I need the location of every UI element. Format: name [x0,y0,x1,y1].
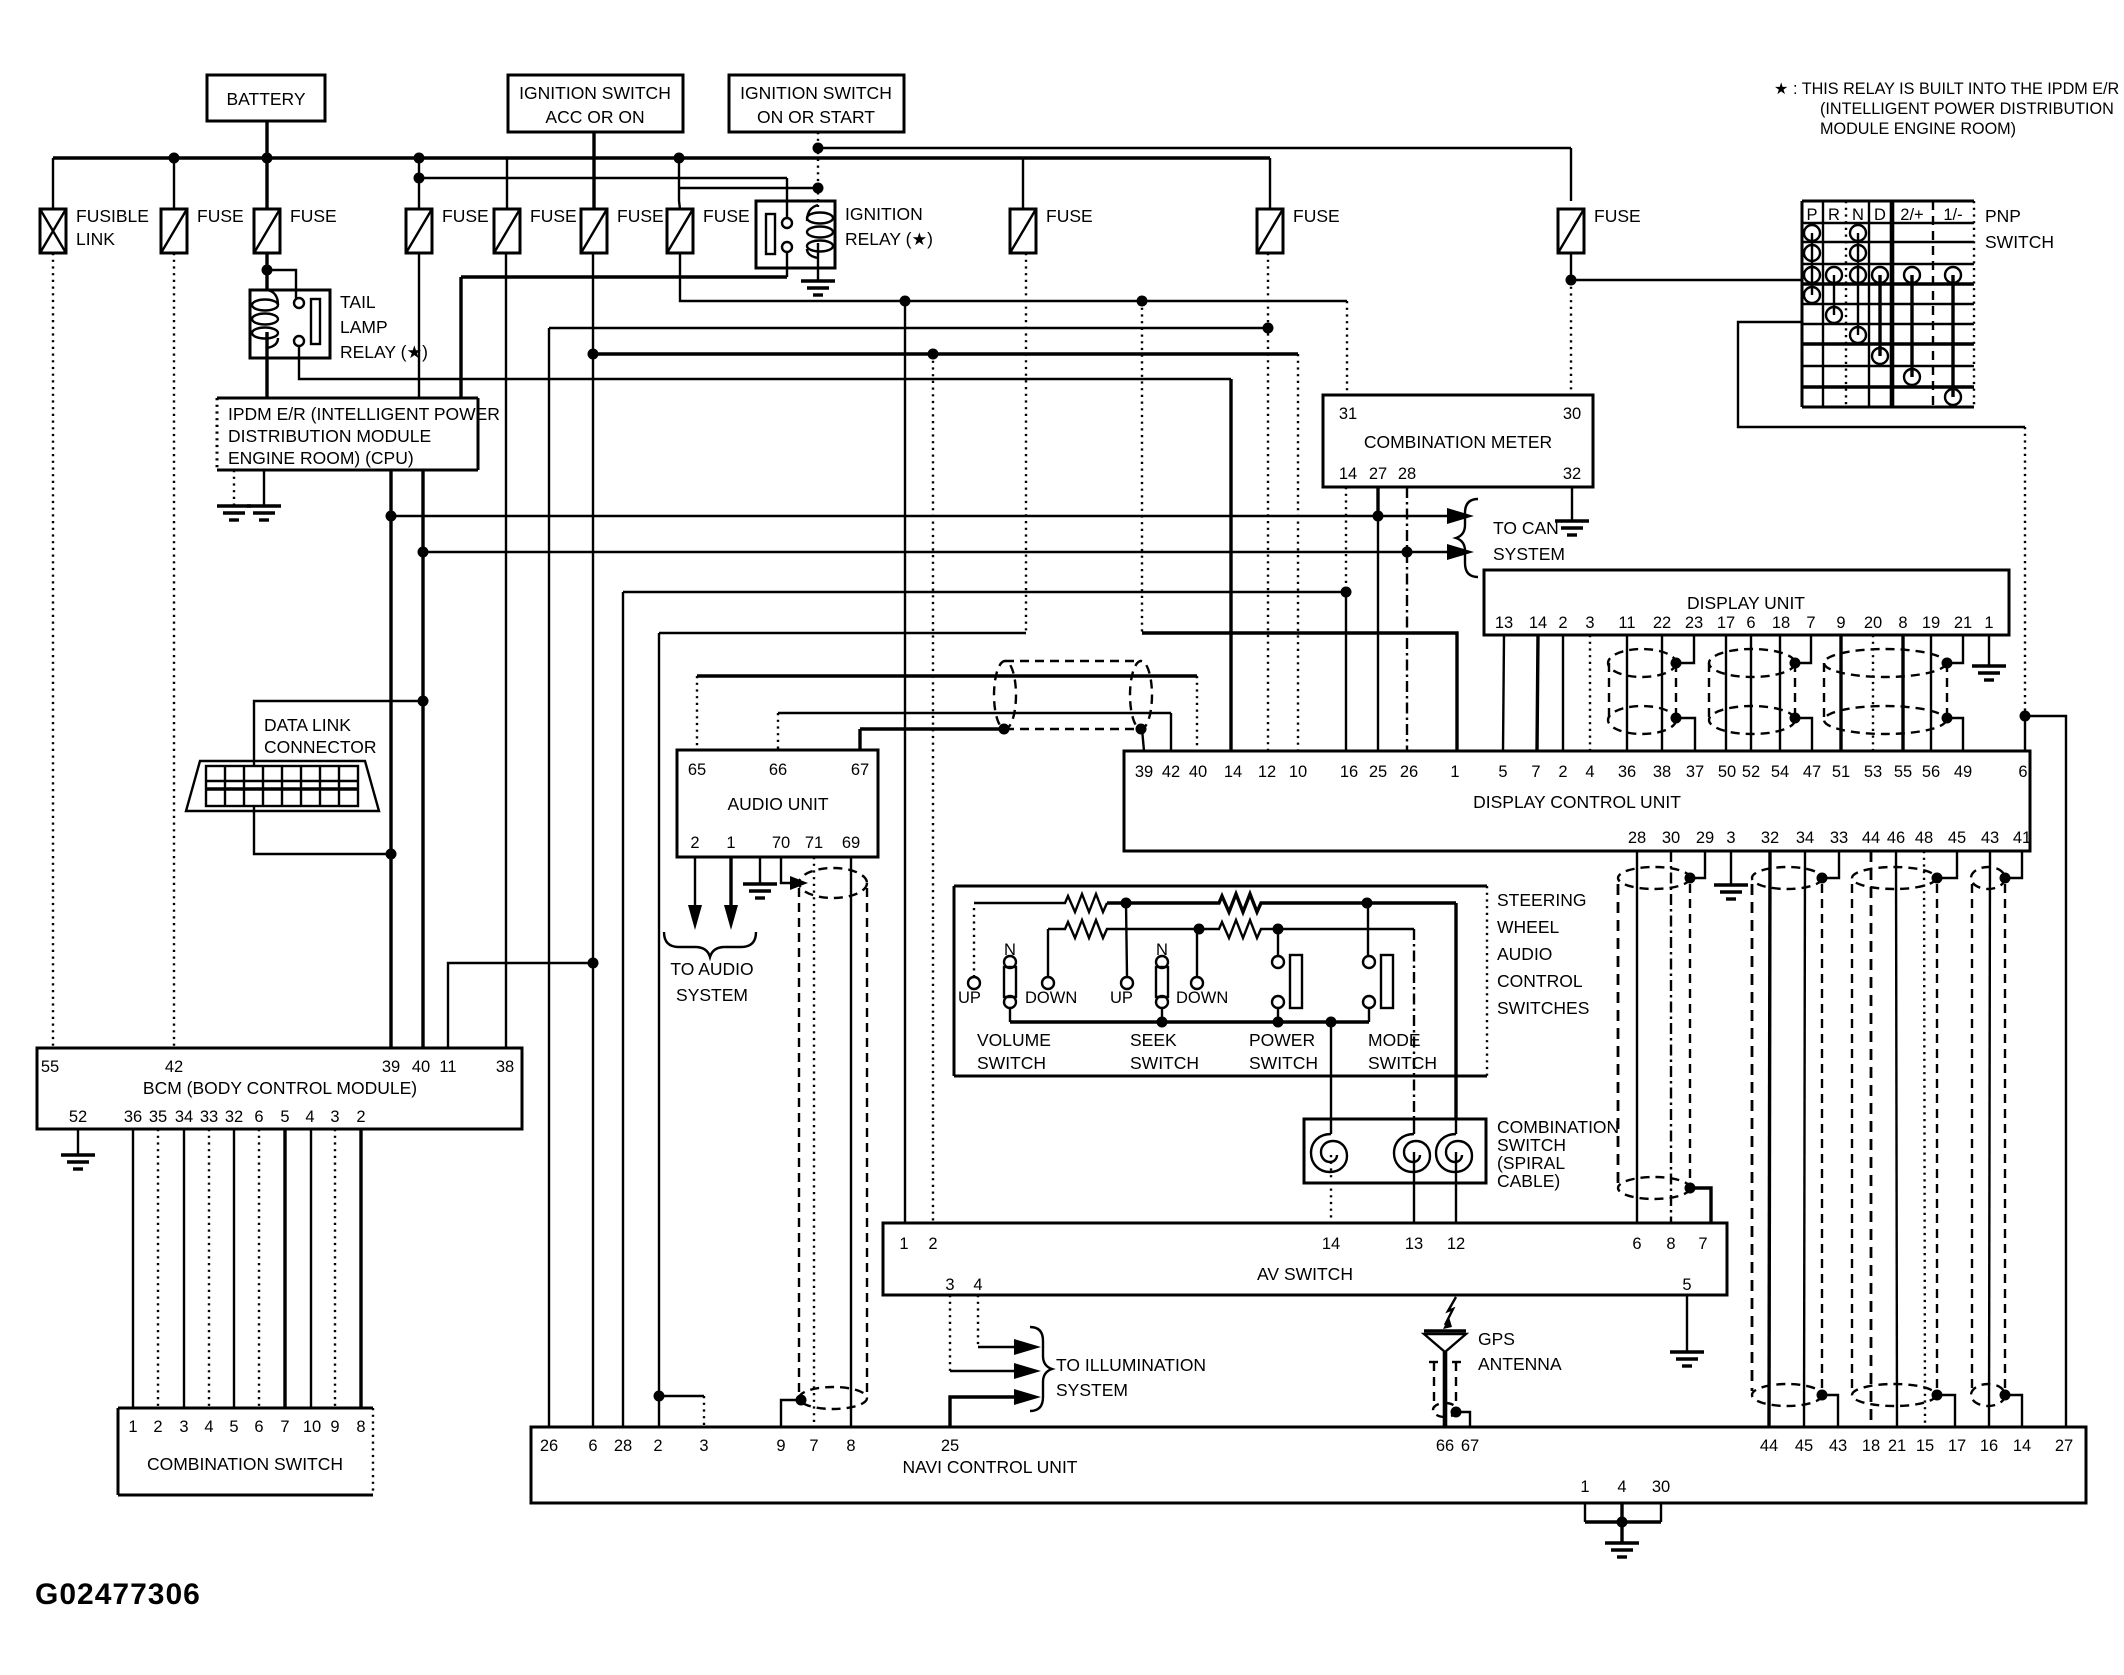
svg-text:SWITCH: SWITCH [1985,232,2054,252]
P column [1804,225,1820,241]
ground IPDM 1 [217,470,251,520]
fuse F9 [1257,206,1340,253]
wire DLC bottom to x391 [254,806,391,854]
ignition relay box [756,201,933,268]
svg-text:45: 45 [1948,829,1966,847]
wire meter14/DCU16 y=592 [623,591,1346,593]
svg-text:FUSE: FUSE [197,206,244,226]
svg-text:FUSE: FUSE [617,206,664,226]
svg-text:FUSE: FUSE [290,206,337,226]
spiral 3 [1436,1134,1472,1172]
svg-text:48: 48 [1915,829,1933,847]
fuse F5 [494,206,577,253]
wire bus left drop to fusible link [52,158,54,209]
svg-text:15: 15 [1916,1437,1934,1455]
wire audio 2 arrow down [694,857,696,905]
svg-text:43: 43 [1829,1437,1847,1455]
svg-text:COMBINATION SWITCH: COMBINATION SWITCH [147,1454,343,1474]
svg-text:40: 40 [412,1058,430,1076]
wire DCU1 thick y=633 [1141,301,1143,633]
svg-text:9: 9 [776,1437,785,1455]
svg-text:1: 1 [1984,614,1993,632]
svg-text:UP: UP [1110,989,1133,1007]
wires DU to DCU straight [1503,635,1504,751]
svg-text:71: 71 [805,834,823,852]
ground AV 5 [1670,1295,1704,1366]
svg-text:51: 51 [1832,763,1850,781]
wire IPDM out to BCM 40 [421,470,424,1048]
ignition switch ACC box [508,75,683,132]
svg-text:SWITCH: SWITCH [1368,1053,1437,1073]
svg-text:3: 3 [699,1437,708,1455]
svg-text:52: 52 [69,1108,87,1126]
fuse F8 [1010,206,1093,253]
svg-text:FUSE: FUSE [1594,206,1641,226]
svg-text:4: 4 [204,1418,213,1436]
svg-text:44: 44 [1760,1437,1778,1455]
svg-text:18: 18 [1772,614,1790,632]
svg-text:N: N [1004,941,1016,959]
svg-text:14: 14 [1529,614,1547,632]
ground audio [743,857,777,898]
svg-text:12: 12 [1258,763,1276,781]
spiral 1 [1311,1134,1347,1172]
svg-text:COMBINATION METER: COMBINATION METER [1364,432,1552,452]
svg-text:STEERING: STEERING [1497,890,1586,910]
svg-text:WHEEL: WHEEL [1497,917,1560,937]
wire DCU 25 [1377,516,1379,751]
svg-text:FUSE: FUSE [1293,206,1340,226]
svg-text:8: 8 [1666,1235,1675,1253]
wire DCU34 to NAVI45 [1804,851,1805,1427]
combination meter box [1323,395,1593,487]
svg-text:47: 47 [1803,763,1821,781]
wire fusible link to BCM 55 [52,253,54,1048]
svg-text:CONTROL: CONTROL [1497,971,1583,991]
svg-text:6: 6 [2018,763,2027,781]
svg-text:38: 38 [496,1058,514,1076]
svg-text:6: 6 [1632,1235,1641,1253]
shield DCU-AV cylinder [1618,851,1711,1223]
wire fuse F4 to IPDM [418,253,420,398]
wire ACC switch stem [592,132,595,209]
svg-text:3: 3 [330,1108,339,1126]
svg-text:DISTRIBUTION MODULE: DISTRIBUTION MODULE [228,426,431,446]
wire CAN-H y=516 [391,515,1447,517]
wire ign-on line y=148 [818,147,1571,149]
wire relay contact feed y=178 [419,177,787,179]
svg-text:FUSE: FUSE [1046,206,1093,226]
wire line1 to spiral 3 [1454,903,1457,1119]
wire audio 66 feed [777,713,779,750]
svg-text:2/+: 2/+ [1900,206,1923,224]
svg-text:50: 50 [1718,763,1736,781]
svg-text:PNP: PNP [1985,206,2021,226]
shield DCU-NAVI cylinder D [1971,851,2022,1427]
svg-text:10: 10 [1289,763,1307,781]
2/+ column [1904,267,1920,283]
wire acc line y=354 to DCU 10 [593,352,1298,355]
svg-text:SWITCH: SWITCH [1249,1053,1318,1073]
svg-text:UP: UP [958,989,981,1007]
wire spiral3 to AV12 [1455,1152,1457,1223]
wire DU21 shield jog [1947,635,1963,663]
svg-text:4: 4 [1585,763,1594,781]
svg-text:N: N [1852,206,1864,224]
shield audio-navi cylinder [796,868,868,1409]
svg-text:SWITCH: SWITCH [1497,1135,1566,1155]
svg-text:BATTERY: BATTERY [226,89,305,109]
svg-text:7: 7 [809,1437,818,1455]
1/- column [1945,267,1961,283]
svg-text:9: 9 [330,1418,339,1436]
svg-text:ACC OR ON: ACC OR ON [545,107,644,127]
svg-text:5: 5 [1682,1276,1691,1294]
svg-text:SWITCH: SWITCH [977,1053,1046,1073]
wire audio 1 arrow down [729,857,732,905]
svg-text:52: 52 [1742,763,1760,781]
svg-text:14: 14 [1224,763,1242,781]
seek switch [1110,903,1228,1073]
svg-text:MODULE ENGINE ROOM): MODULE ENGINE ROOM) [1820,120,2016,138]
svg-text:SEEK: SEEK [1130,1030,1177,1050]
wire AV3 to illum arrow [949,1295,951,1371]
svg-text:21: 21 [1888,1437,1906,1455]
svg-text:70: 70 [772,834,790,852]
IPDM E/R box [217,398,500,470]
wire navi25 to illum arrow [950,1397,1014,1427]
N column [1850,225,1866,241]
svg-text:SYSTEM: SYSTEM [1056,1380,1128,1400]
shield audio cylinder horizontal [994,661,1152,751]
svg-text:55: 55 [41,1058,59,1076]
svg-text:ANTENNA: ANTENNA [1478,1354,1562,1374]
wire mode branch to spiral 1 [1330,1022,1332,1119]
svg-text:32: 32 [1761,829,1779,847]
shield DU cylinder 2 [1709,649,1801,734]
svg-text:SYSTEM: SYSTEM [676,985,748,1005]
spiral entry stubs [1330,1119,1332,1134]
svg-text:18: 18 [1862,1437,1880,1455]
wire navi26 line y=328 [549,327,1268,329]
svg-text:SYSTEM: SYSTEM [1493,544,1565,564]
svg-text:COMBINATION: COMBINATION [1497,1117,1619,1137]
svg-text:ON OR START: ON OR START [757,107,875,127]
wire audio 67 feed [858,729,861,750]
fuse F3 battery [254,206,337,253]
ground IPDM 2 [247,470,281,520]
resistor line 2 [1048,920,1414,938]
svg-text:31: 31 [1339,405,1357,423]
svg-text:17: 17 [1948,1437,1966,1455]
fuse F7 [667,206,750,253]
svg-text:25: 25 [941,1437,959,1455]
wire line2 to spiral 2 dashdot [1413,929,1415,1119]
ground DU 1 [1972,635,2006,680]
svg-text:R: R [1828,206,1840,224]
svg-text:G02477306: G02477306 [35,1578,201,1611]
svg-text:(INTELLIGENT POWER DISTRIBUTIO: (INTELLIGENT POWER DISTRIBUTION [1820,100,2114,118]
svg-text:2: 2 [928,1235,937,1253]
svg-text:42: 42 [1162,763,1180,781]
wire tail relay contact to DCU 14 [299,346,1231,379]
wire CAN-L y=552 [423,551,1447,553]
svg-text:AUDIO: AUDIO [1497,944,1552,964]
to audio brace [664,932,756,957]
wire IPDM out to BCM 39 [389,470,392,1048]
svg-text:36: 36 [1618,763,1636,781]
svg-text:13: 13 [1405,1235,1423,1253]
svg-text:25: 25 [1369,763,1387,781]
svg-text:55: 55 [1894,763,1912,781]
svg-text:69: 69 [842,834,860,852]
svg-text:19: 19 [1922,614,1940,632]
svg-text:IGNITION SWITCH: IGNITION SWITCH [740,83,892,103]
wire fuse stems [173,158,175,209]
resistor line 1 [974,894,1456,912]
svg-text:12: 12 [1447,1235,1465,1253]
svg-text:9: 9 [1836,614,1845,632]
svg-text:4: 4 [973,1276,982,1294]
svg-text:40: 40 [1189,763,1207,781]
svg-text:16: 16 [1980,1437,1998,1455]
svg-text:28: 28 [1628,829,1646,847]
wire fuse F6 to NAVI 6 [592,253,594,1427]
svg-text:P: P [1806,206,1817,224]
svg-text:2: 2 [1558,763,1567,781]
spiral 2 [1394,1134,1430,1172]
svg-text:FUSE: FUSE [530,206,577,226]
svg-text:1: 1 [128,1418,137,1436]
wire navi 28 vertical [622,592,624,1427]
svg-text:TO CAN: TO CAN [1493,518,1559,538]
svg-text:23: 23 [1685,614,1703,632]
svg-text:30: 30 [1563,405,1581,423]
svg-text:SWITCH: SWITCH [1130,1053,1199,1073]
svg-text:42: 42 [165,1058,183,1076]
wire DCU28 to AV6 [1636,851,1638,1223]
svg-text:39: 39 [1135,763,1153,781]
svg-text:34: 34 [1796,829,1814,847]
svg-text:33: 33 [200,1108,218,1126]
svg-text:30: 30 [1652,1478,1670,1496]
svg-text:FUSIBLE: FUSIBLE [76,206,149,226]
svg-text:CONNECTOR: CONNECTOR [264,737,376,757]
wire AV4 to illum arrow [977,1295,979,1347]
node bus dots [169,153,180,164]
wire fuse F8 dotted to navi 2 [1025,253,1027,633]
mode switch [1363,903,1437,1073]
svg-text:LINK: LINK [76,229,115,249]
wire tail relay coil to IPDM [265,332,268,398]
svg-text:ENGINE ROOM) (CPU): ENGINE ROOM) (CPU) [228,448,414,468]
svg-text:21: 21 [1954,614,1972,632]
svg-text:29: 29 [1696,829,1714,847]
svg-text:22: 22 [1653,614,1671,632]
svg-text:32: 32 [225,1108,243,1126]
svg-text:AV SWITCH: AV SWITCH [1257,1264,1353,1284]
svg-text:28: 28 [1398,465,1416,483]
wire PNP to DCU6 dotted [2024,427,2026,716]
svg-text:SWITCHES: SWITCHES [1497,998,1589,1018]
svg-text:44: 44 [1862,829,1880,847]
svg-text:DISPLAY CONTROL UNIT: DISPLAY CONTROL UNIT [1473,792,1681,812]
svg-text:49: 49 [1954,763,1972,781]
svg-text:AUDIO UNIT: AUDIO UNIT [727,794,828,814]
svg-text:38: 38 [1653,763,1671,781]
svg-text:10: 10 [303,1418,321,1436]
svg-text:4: 4 [1617,1478,1626,1496]
fuse F4 [406,206,489,253]
svg-text:6: 6 [588,1437,597,1455]
wire meter 30 to fuse F10 [1570,253,1572,280]
svg-text:45: 45 [1795,1437,1813,1455]
to can brace [1456,499,1478,577]
svg-text:NAVI CONTROL UNIT: NAVI CONTROL UNIT [902,1457,1077,1477]
note text [1774,80,2119,138]
shield DCU-NAVI cylinder B [1752,851,1839,1427]
wire DU23 shield jog [1676,635,1694,663]
svg-text:11: 11 [439,1058,456,1076]
svg-text:3: 3 [1726,829,1735,847]
svg-text:MODE: MODE [1368,1030,1421,1050]
svg-text:43: 43 [1981,829,1999,847]
svg-text:5: 5 [229,1418,238,1436]
wire AV pin1 long [904,301,906,1223]
wire START switch stem dotted [817,132,819,205]
svg-text:3: 3 [945,1276,954,1294]
svg-text:D: D [1874,206,1886,224]
svg-text:DISPLAY UNIT: DISPLAY UNIT [1687,593,1805,613]
svg-text:3: 3 [1585,614,1594,632]
svg-text:7: 7 [1806,614,1815,632]
svg-text:8: 8 [356,1418,365,1436]
shield DU cylinder 1 [1608,649,1682,734]
volume switch [958,908,1077,1073]
tail lamp relay box [250,290,428,362]
svg-text:32: 32 [1563,465,1581,483]
wire navi 9 to shield [781,1400,801,1427]
wire fuse F3 to relay [265,253,268,290]
svg-text:DATA LINK: DATA LINK [264,715,351,735]
wire DCU46 to NAVI21 [1896,851,1897,1427]
wire meter 27 to CAN [1376,487,1379,516]
svg-text:LAMP: LAMP [340,317,388,337]
svg-text:6: 6 [1746,614,1755,632]
ground BCM 52 [61,1129,95,1169]
ground navi 1-4-30 [1585,1503,1661,1557]
svg-text:30: 30 [1662,829,1680,847]
svg-text:14: 14 [1339,465,1357,483]
svg-text:65: 65 [688,761,706,779]
svg-text:14: 14 [1322,1235,1340,1253]
svg-text:36: 36 [124,1108,142,1126]
svg-text:27: 27 [1369,465,1387,483]
svg-text:DOWN: DOWN [1176,989,1228,1007]
fuse F6 acc [581,206,664,253]
svg-text:7: 7 [1698,1235,1707,1253]
wire audio 70 to shield arrow [781,857,790,883]
svg-text:TO ILLUMINATION: TO ILLUMINATION [1056,1355,1206,1375]
svg-text:67: 67 [1461,1437,1479,1455]
svg-text:37: 37 [1686,763,1704,781]
wire fuse F2 to BCM 42 [173,253,175,1048]
svg-text:1: 1 [899,1235,908,1253]
svg-text:8: 8 [846,1437,855,1455]
svg-text:3: 3 [179,1418,188,1436]
ground meter 32 [1555,487,1589,535]
svg-text:8: 8 [1898,614,1907,632]
svg-text:1: 1 [726,834,735,852]
svg-text:53: 53 [1864,763,1882,781]
battery box [207,75,325,121]
wire DCU44 to NAVI18 dashed [1870,851,1873,1427]
svg-text:FUSE: FUSE [703,206,750,226]
svg-text:★ : THIS RELAY IS BUILT INTO T: ★ : THIS RELAY IS BUILT INTO THE IPDM E/… [1774,80,2119,98]
svg-text:20: 20 [1864,614,1882,632]
svg-text:(SPIRAL: (SPIRAL [1497,1153,1565,1173]
svg-text:BCM (BODY CONTROL MODULE): BCM (BODY CONTROL MODULE) [143,1078,417,1098]
svg-text:RELAY (★): RELAY (★) [845,229,933,249]
svg-text:16: 16 [1340,763,1358,781]
svg-text:FUSE: FUSE [442,206,489,226]
svg-text:6: 6 [254,1418,263,1436]
wire DLC top to x423 [254,701,423,766]
wire BCM11 feed [448,963,593,1048]
svg-text:VOLUME: VOLUME [977,1030,1051,1050]
svg-text:POWER: POWER [1249,1030,1315,1050]
svg-text:GPS: GPS [1478,1329,1515,1349]
svg-text:2: 2 [1558,614,1567,632]
fuse F2 [161,206,244,253]
svg-text:1: 1 [1450,763,1459,781]
wire bus right drop to fuse10 [1269,158,1271,209]
wire fuse F5 to BCM 38 [505,253,507,1048]
wire DCU30 to AV8 [1670,851,1672,1223]
svg-text:5: 5 [280,1108,289,1126]
svg-text:41: 41 [2013,829,2031,847]
wire audio 69 to navi 8 [850,857,852,1427]
svg-text:35: 35 [149,1108,167,1126]
wires BCM to combination switch [132,1129,134,1408]
svg-text:34: 34 [175,1108,193,1126]
wire DCU43 to NAVI16 [1989,851,1990,1427]
svg-text:13: 13 [1495,614,1513,632]
R column [1826,267,1842,283]
wire relay contact bottom to IPDM y=277 [786,252,788,277]
svg-text:IGNITION: IGNITION [845,204,923,224]
svg-text:2: 2 [653,1437,662,1455]
svg-text:27: 27 [2055,1437,2073,1455]
svg-text:N: N [1156,941,1168,959]
power switch [1249,929,1318,1073]
wire DCU32 to NAVI44 thick [1769,851,1770,1427]
svg-text:67: 67 [851,761,869,779]
svg-text:1/-: 1/- [1943,206,1962,224]
svg-text:IGNITION SWITCH: IGNITION SWITCH [519,83,671,103]
svg-text:DOWN: DOWN [1025,989,1077,1007]
svg-text:33: 33 [1830,829,1848,847]
wire PNP to NAVI 27 [2025,716,2066,1427]
wire spiral1 to AV14 dotted [1330,1155,1332,1223]
svg-text:2: 2 [690,834,699,852]
wire fuse F9 to DCU 12 dotted [1267,253,1269,751]
svg-text:TO AUDIO: TO AUDIO [670,959,753,979]
ignition switch START box [729,75,904,132]
svg-text:7: 7 [1531,763,1540,781]
switch bottom bus [1010,1017,1369,1028]
svg-text:56: 56 [1922,763,1940,781]
